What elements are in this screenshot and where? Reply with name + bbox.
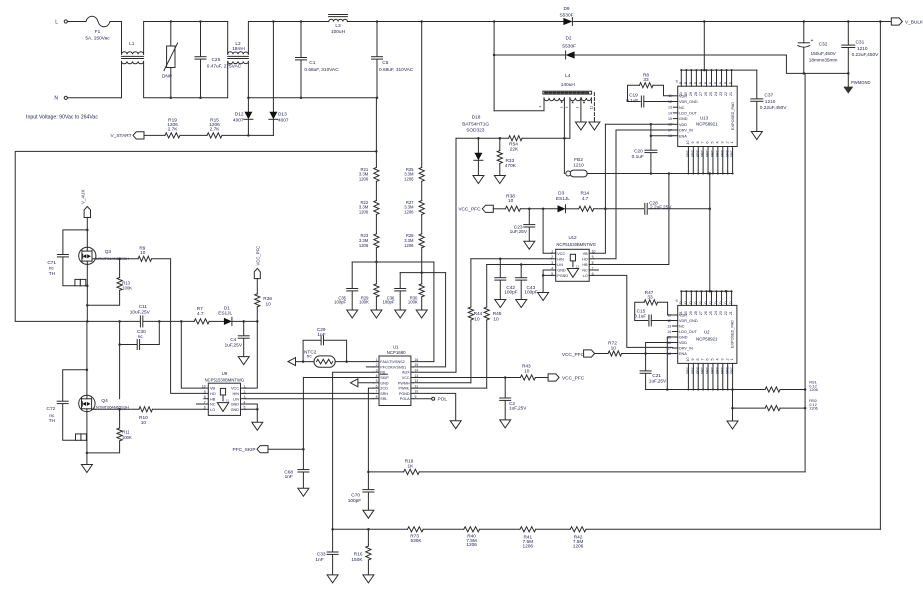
svg-text:SRC: SRC <box>691 149 695 157</box>
ground R16 <box>363 575 374 583</box>
svg-text:4.7: 4.7 <box>582 196 589 202</box>
svg-text:100K: 100K <box>408 300 418 305</box>
svg-text:1uF,25V: 1uF,25V <box>225 343 243 349</box>
svg-text:C70: C70 <box>351 492 360 498</box>
svg-text:L: L <box>55 19 58 25</box>
svg-text:1206: 1206 <box>404 243 414 248</box>
ground U9 <box>252 422 263 430</box>
svg-text:21: 21 <box>729 92 733 96</box>
svg-text:1uF,25V: 1uF,25V <box>509 406 527 412</box>
ground R30 <box>416 310 427 318</box>
svg-text:HIN: HIN <box>557 257 564 261</box>
wire U2 GND <box>666 337 672 391</box>
svg-text:U13: U13 <box>700 115 709 120</box>
net V_BULK flag <box>891 18 923 25</box>
resistor R33 <box>497 138 517 175</box>
wire L4 dashed pin <box>591 93 594 122</box>
capacitor C30 loop <box>118 321 159 349</box>
svg-text:C21: C21 <box>652 373 661 379</box>
svg-text:C71: C71 <box>47 260 56 266</box>
svg-text:SRC: SRC <box>725 149 729 157</box>
svg-text:9: 9 <box>691 141 695 143</box>
IC U1 NCP1680 PFC controller <box>373 345 418 406</box>
svg-text:1206: 1206 <box>359 177 369 182</box>
svg-text:HB: HB <box>582 263 588 267</box>
wire R38-D3 <box>520 208 557 211</box>
wire R23 to tap1 <box>375 248 378 284</box>
svg-text:1206: 1206 <box>359 243 369 248</box>
svg-text:7: 7 <box>701 141 705 143</box>
wire L2 to top rail <box>248 20 328 54</box>
wire U1 PGND <box>413 393 455 420</box>
resistor R43 <box>505 364 535 381</box>
svg-text:100K: 100K <box>122 286 132 291</box>
svg-text:10: 10 <box>141 420 147 426</box>
ground L4 sec2 <box>589 122 600 130</box>
svg-text:PGND: PGND <box>399 392 410 396</box>
ground C33 <box>327 575 338 583</box>
svg-text:L2: L2 <box>235 41 241 47</box>
svg-text:31: 31 <box>679 92 683 96</box>
svg-text:11: 11 <box>576 265 579 269</box>
ground L4 sec1 <box>575 98 586 130</box>
wire AUX sense row <box>456 137 566 140</box>
svg-text:4.7: 4.7 <box>197 311 204 317</box>
svg-text:DNP: DNP <box>162 74 172 80</box>
capacitor C29 loop <box>303 327 347 362</box>
wire R9 to U9 HO <box>152 259 204 394</box>
ground C23 <box>524 241 535 249</box>
svg-text:18mmx35mm: 18mmx35mm <box>809 57 838 63</box>
svg-text:470K: 470K <box>505 163 517 169</box>
svg-text:100K: 100K <box>359 300 369 305</box>
wire U12 GND/PGND to ground <box>542 270 552 293</box>
svg-text:GND: GND <box>380 381 389 385</box>
svg-text:26: 26 <box>704 92 708 96</box>
svg-text:nc: nc <box>307 354 313 359</box>
svg-text:1206: 1206 <box>809 387 818 392</box>
svg-text:5: 5 <box>711 141 715 143</box>
resistor R15 <box>207 117 222 138</box>
svg-text:AUX: AUX <box>402 371 410 375</box>
ground C4 <box>238 357 249 365</box>
svg-text:10: 10 <box>686 357 690 361</box>
svg-text:C25: C25 <box>212 57 221 63</box>
ground C70 <box>363 510 374 518</box>
inductor L3 <box>329 15 348 36</box>
no-connect U12 NC <box>593 269 598 271</box>
capacitor C37 <box>751 70 788 131</box>
svg-text:10: 10 <box>266 301 272 307</box>
wire R40-R41 <box>480 528 521 530</box>
svg-text:VCC_PFC: VCC_PFC <box>256 246 261 266</box>
svg-text:0.1uF: 0.1uF <box>634 314 646 320</box>
wire U13 VDD from VB rail <box>605 123 673 126</box>
svg-text:100pF: 100pF <box>504 289 518 295</box>
svg-text:1206: 1206 <box>404 210 414 215</box>
wire R41-R42 <box>536 528 571 530</box>
capacitor C21 <box>640 354 667 390</box>
varistor DNP <box>162 20 178 99</box>
ground U12 <box>538 293 549 301</box>
ground U1 PGND <box>450 421 461 429</box>
svg-text:S530F: S530F <box>562 44 576 50</box>
svg-text:D12: D12 <box>235 111 244 117</box>
wire R27-R28 <box>421 215 423 234</box>
wire R7-D1 <box>209 320 224 322</box>
svg-text:Q4: Q4 <box>101 398 108 404</box>
svg-text:0.22uF,450V: 0.22uF,450V <box>760 105 788 111</box>
svg-text:1nF: 1nF <box>315 557 323 563</box>
svg-text:D1: D1 <box>224 305 230 311</box>
svg-text:LDO_OUT: LDO_OUT <box>679 112 698 116</box>
svg-text:LO: LO <box>583 274 588 278</box>
wire R73-R40 <box>423 528 464 530</box>
svg-text:SRC: SRC <box>696 366 700 374</box>
svg-text:1206: 1206 <box>466 542 477 548</box>
svg-text:NCP58921: NCP58921 <box>696 336 718 341</box>
svg-text:21: 21 <box>729 311 733 315</box>
svg-text:8: 8 <box>696 141 700 143</box>
svg-text:4: 4 <box>539 105 543 107</box>
wire L input with terminal <box>55 19 86 25</box>
svg-text:ENA: ENA <box>679 352 687 356</box>
svg-text:1: 1 <box>376 358 378 362</box>
svg-text:ES1JL: ES1JL <box>556 196 570 202</box>
svg-text:V_START: V_START <box>111 133 132 139</box>
svg-text:27: 27 <box>699 92 703 96</box>
diode D2 <box>494 36 786 59</box>
wire tap2 row <box>400 272 445 274</box>
svg-text:30: 30 <box>684 92 688 96</box>
resistor R9 <box>138 245 152 261</box>
transistor Q3 <box>79 247 129 264</box>
svg-text:1: 1 <box>576 106 580 108</box>
svg-text:13: 13 <box>668 106 672 110</box>
wire U13 source bus <box>587 172 733 175</box>
svg-text:12: 12 <box>590 106 594 110</box>
svg-text:V_AUX: V_AUX <box>81 190 86 204</box>
resistor R7 <box>194 306 209 324</box>
wire U12 VCC <box>543 209 551 253</box>
resistor R22 <box>359 200 379 215</box>
svg-text:ENA: ENA <box>679 134 687 138</box>
resistor R36 <box>255 279 273 322</box>
wire R21-R22 <box>375 181 377 200</box>
capacitor C31 <box>842 22 879 74</box>
wire top rail to D9 <box>347 20 563 23</box>
diode D12 <box>233 98 253 136</box>
svg-text:2: 2 <box>725 141 729 143</box>
svg-text:1uF,25V: 1uF,25V <box>649 378 667 384</box>
wire tap1 to U1 VSNS2 <box>413 262 434 362</box>
svg-text:14: 14 <box>668 111 672 115</box>
stub U1 PFCOK <box>366 366 373 368</box>
svg-text:SRC: SRC <box>715 366 719 374</box>
svg-text:FAULT\VSNS2: FAULT\VSNS2 <box>380 360 404 364</box>
svg-text:VCC_PFC: VCC_PFC <box>458 207 481 213</box>
svg-text:1206: 1206 <box>809 406 818 411</box>
wire U1 VSNS2 vert <box>0 0 1 1</box>
svg-text:C72: C72 <box>47 406 56 412</box>
ground C37 <box>751 132 762 140</box>
ground C43 <box>516 300 527 308</box>
wire sense bus vertical <box>804 73 806 472</box>
svg-text:nc: nc <box>49 266 55 271</box>
svg-text:HIN: HIN <box>232 392 239 396</box>
svg-text:GND: GND <box>679 117 688 121</box>
svg-text:POL: POL <box>438 397 448 403</box>
resistor R11 <box>87 409 132 453</box>
svg-text:30: 30 <box>684 311 688 315</box>
resistor R28 <box>404 233 424 248</box>
svg-text:SRC: SRC <box>720 366 724 374</box>
svg-text:23: 23 <box>719 92 723 96</box>
svg-text:LIN: LIN <box>233 397 239 401</box>
svg-text:SRC: SRC <box>706 366 710 374</box>
svg-text:25: 25 <box>709 92 713 96</box>
svg-text:VCC_PFC: VCC_PFC <box>562 375 585 381</box>
svg-text:SKIP: SKIP <box>380 376 389 380</box>
wire R18 to sense bus <box>419 471 805 473</box>
resistor R16 <box>351 529 371 575</box>
net VCC_PFC flag mid <box>458 205 505 212</box>
svg-text:1: 1 <box>730 358 734 360</box>
capacitor C28 <box>645 201 711 215</box>
svg-text:SRC: SRC <box>720 149 724 157</box>
svg-text:TH: TH <box>49 418 56 424</box>
capacitor C70 <box>348 472 374 510</box>
svg-text:L3: L3 <box>335 23 341 29</box>
svg-text:140uH: 140uH <box>561 82 576 88</box>
wire U12 LO to U2 DRV_IN <box>593 275 672 347</box>
svg-text:FB2: FB2 <box>574 157 583 163</box>
resistor R19 <box>165 117 180 138</box>
svg-text:100pF: 100pF <box>334 300 346 305</box>
svg-text:VCC: VCC <box>402 376 410 380</box>
IC U12 NCP51530 half-bridge driver <box>551 235 596 281</box>
svg-text:N: N <box>54 96 58 102</box>
common-mode choke L2 <box>228 22 249 98</box>
svg-text:2: 2 <box>725 358 729 360</box>
svg-text:GND: GND <box>557 269 566 273</box>
svg-text:LDO_OUT: LDO_OUT <box>679 330 698 334</box>
resistor R25 <box>404 22 424 182</box>
resistor R38 <box>505 193 520 211</box>
svg-text:LO: LO <box>210 408 215 412</box>
svg-text:29: 29 <box>689 92 693 96</box>
svg-text:R33: R33 <box>506 158 515 164</box>
ground C42 <box>495 300 506 308</box>
svg-text:1uF,25V: 1uF,25V <box>510 229 528 235</box>
svg-text:NC: NC <box>679 325 685 329</box>
wire D3-R14 <box>566 208 579 210</box>
wire source bus to ground <box>731 390 734 422</box>
wire L1 bottom right to rail <box>144 61 228 97</box>
capacitor C23 <box>510 209 535 242</box>
capacitor C2 <box>500 378 528 420</box>
diode D13 <box>269 22 289 136</box>
wire U12 LIN <box>487 263 552 266</box>
net VCC_PFC flag vertical <box>254 246 260 279</box>
resistor R27 <box>404 200 424 215</box>
svg-text:13: 13 <box>667 324 671 328</box>
ground PWMGND <box>843 73 870 93</box>
svg-text:28: 28 <box>694 92 698 96</box>
diode D1 <box>218 305 232 325</box>
wire HB to switch node <box>119 345 121 399</box>
svg-text:1206: 1206 <box>523 543 534 549</box>
svg-text:2.7K: 2.7K <box>210 127 221 133</box>
wire VB bootstrap <box>181 321 204 388</box>
svg-text:10: 10 <box>686 140 690 144</box>
svg-text:R14: R14 <box>580 191 589 197</box>
svg-text:1210: 1210 <box>573 162 584 168</box>
capacitor C32 bulk electrolytic <box>798 22 838 74</box>
net V_AUX flag <box>81 190 91 218</box>
svg-text:VB: VB <box>583 252 589 256</box>
wire R15 to D12/D13 <box>222 134 273 137</box>
svg-text:4: 4 <box>715 141 719 143</box>
svg-text:PFC_SKIP: PFC_SKIP <box>233 447 256 453</box>
IC U13 NCP58921 GaN driver <box>668 69 737 175</box>
svg-text:VDD: VDD <box>679 123 687 127</box>
svg-text:9: 9 <box>204 390 206 394</box>
svg-text:100pF: 100pF <box>383 300 395 305</box>
svg-text:C15: C15 <box>637 309 646 315</box>
svg-text:8: 8 <box>696 358 700 360</box>
svg-text:7: 7 <box>376 390 378 394</box>
svg-text:3: 3 <box>376 369 378 373</box>
svg-text:3: 3 <box>720 358 724 360</box>
svg-text:+: + <box>811 38 814 44</box>
svg-text:NCP58921: NCP58921 <box>696 122 718 127</box>
wire L1 top right to rail <box>144 22 228 55</box>
wire R10 to U9 LO <box>152 408 204 410</box>
wire U1 VCC row <box>413 376 506 379</box>
svg-text:V_BULK: V_BULK <box>905 19 923 25</box>
svg-text:100K: 100K <box>122 435 132 440</box>
svg-text:9: 9 <box>691 358 695 360</box>
wire ZCD node row R18 <box>367 471 403 474</box>
capacitor C25 <box>195 20 242 99</box>
svg-text:15: 15 <box>415 363 419 367</box>
svg-text:VDD: VDD <box>679 341 687 345</box>
svg-text:6: 6 <box>376 384 378 388</box>
svg-text:NCP1680: NCP1680 <box>387 350 407 355</box>
svg-text:VDR_GND: VDR_GND <box>679 319 698 323</box>
svg-text:ZCD: ZCD <box>380 387 388 391</box>
wire L2 to bottom rail <box>247 61 378 99</box>
svg-text:33: 33 <box>643 77 649 83</box>
ground C36 <box>395 310 406 318</box>
transformer L4 boost inductor <box>494 73 593 111</box>
resistor R42 <box>570 527 586 550</box>
svg-text:3: 3 <box>720 141 724 143</box>
svg-text:530K: 530K <box>410 538 422 544</box>
wire U1 FB to divider <box>333 372 374 529</box>
svg-text:1: 1 <box>730 141 734 143</box>
ground U2 source <box>727 421 738 429</box>
resistor R47 <box>635 290 673 321</box>
wire R42 to V_BULK bus <box>586 528 880 530</box>
svg-text:SRC: SRC <box>696 149 700 157</box>
svg-text:U2: U2 <box>704 329 710 334</box>
wire U1 FAULT row with NTC <box>295 360 373 363</box>
svg-text:5: 5 <box>711 358 715 360</box>
svg-text:22: 22 <box>724 311 728 315</box>
wire D9 anode vertical <box>493 22 496 111</box>
svg-text:C4: C4 <box>230 337 236 343</box>
IC U9 NCP51530 SR driver <box>202 371 246 415</box>
wire Q4 drain <box>86 321 89 395</box>
resistor R8 <box>628 73 674 102</box>
resistor R41 <box>520 527 536 550</box>
wire fuse to L1 <box>110 22 122 55</box>
wire U12 HB to switch node <box>593 174 669 265</box>
svg-text:0.68uF, 310VAC: 0.68uF, 310VAC <box>379 67 414 73</box>
svg-text:4: 4 <box>715 358 719 360</box>
svg-text:SRH: SRH <box>380 392 388 396</box>
svg-text:GND: GND <box>231 403 240 407</box>
svg-text:8: 8 <box>376 395 378 399</box>
svg-text:VDR_GND: VDR_GND <box>679 100 698 104</box>
resistor R30 <box>408 284 424 310</box>
resistor R10 <box>139 407 153 426</box>
svg-text:1nF: 1nF <box>317 332 325 338</box>
svg-text:SRL: SRL <box>380 397 387 401</box>
svg-text:14: 14 <box>667 330 671 334</box>
svg-text:1210: 1210 <box>765 99 776 105</box>
svg-text:29: 29 <box>689 311 693 315</box>
wire U9 HIN to U1 SRH <box>245 392 373 394</box>
capacitor C42 <box>495 259 518 300</box>
svg-text:PWML: PWML <box>399 387 410 391</box>
fuse F1 <box>85 16 110 41</box>
svg-text:U9: U9 <box>222 371 228 376</box>
svg-text:PFCOK\VSNS1: PFCOK\VSNS1 <box>380 365 406 369</box>
wire Q3 gate <box>96 258 139 261</box>
wire switch node row <box>87 320 140 323</box>
svg-text:SRC: SRC <box>715 149 719 157</box>
svg-text:1nF: 1nF <box>285 474 293 480</box>
net POL <box>413 397 447 403</box>
svg-text:24: 24 <box>714 92 718 96</box>
svg-text:Q3: Q3 <box>105 249 112 255</box>
svg-text:GND: GND <box>679 336 688 340</box>
thermistor NTC2 <box>304 349 335 367</box>
spark gap Q4 gate protection <box>76 434 87 440</box>
svg-text:NC: NC <box>679 106 685 110</box>
svg-text:SRC: SRC <box>711 149 715 157</box>
svg-text:C37: C37 <box>764 93 773 99</box>
wire D1 to VCC node <box>232 320 259 323</box>
wire U12 HO to U13 DRV_IN <box>593 130 616 259</box>
svg-text:C20: C20 <box>634 149 643 155</box>
svg-text:22: 22 <box>724 92 728 96</box>
ground Q4 source <box>81 465 92 473</box>
svg-text:10: 10 <box>493 317 499 323</box>
svg-text:6: 6 <box>706 358 710 360</box>
svg-text:VCC_PFC: VCC_PFC <box>562 352 585 358</box>
svg-text:SRC: SRC <box>691 366 695 374</box>
capacitor C71 <box>47 230 87 286</box>
svg-text:NC: NC <box>582 269 588 273</box>
svg-text:3: 3 <box>560 106 564 108</box>
svg-text:GND: GND <box>231 408 240 412</box>
svg-text:F1: F1 <box>95 29 101 35</box>
svg-text:10: 10 <box>524 369 530 375</box>
